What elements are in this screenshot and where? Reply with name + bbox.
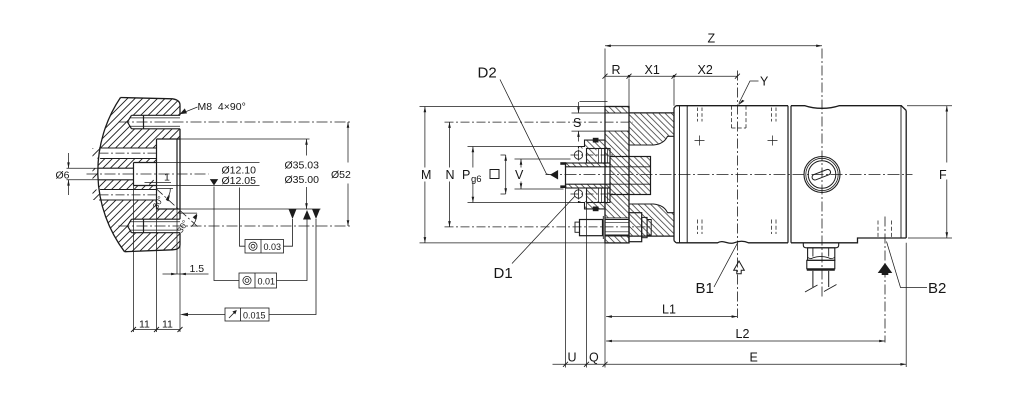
svg-text:Ø12.05: Ø12.05 [222,175,257,187]
svg-text:E: E [750,351,758,365]
M8 tapped hole top [128,115,181,129]
svg-text:1: 1 [164,172,170,184]
svg-text:P: P [462,168,470,182]
rear body right face [905,111,907,239]
neck bell bore bottom [629,204,674,213]
dimension Z [604,49,606,107]
B2 hole centreline [884,217,886,343]
dimension 11 11 [134,329,181,331]
band centrelines [100,153,158,195]
fitting hex [808,248,835,260]
svg-text:X1: X1 [645,63,660,77]
svg-text:Q: Q [589,351,599,365]
rear body bottom edge and corner notch [791,238,906,243]
neck bell bore top [629,136,674,145]
fitting tube with break [813,271,829,287]
LEFT VIEW GROUP [56,98,353,333]
bottom fitting flange [803,243,838,248]
dimension V [515,159,571,189]
Ø6 hole edges [99,168,134,180]
svg-text:g6: g6 [471,174,482,185]
dimension L1 [606,316,737,318]
Ø52 dimension line with arrows [347,122,349,226]
front housing left rings [673,108,675,241]
Ø12 extension lines [157,163,260,186]
RIGHT VIEW GROUP [420,32,953,368]
port kidney slot [811,169,831,181]
neck (front cover) outline [629,113,674,236]
flange front face line x=179.5 [179,105,181,245]
svg-text:11: 11 [139,319,150,331]
svg-text:B2: B2 [928,280,946,297]
svg-text:D2: D2 [478,65,497,82]
svg-text:0.01: 0.01 [258,276,276,286]
recess bottom face x=156 [156,139,158,209]
washer [602,216,604,239]
fitting ring nut [807,260,835,269]
dimension 1 (step) [145,182,172,184]
main shaft centreline [546,174,913,176]
hidden holes bottom face [698,220,777,235]
hidden slot top edge line [580,101,608,103]
gear shaft sectioned block [610,157,651,195]
neck hatched areas [629,113,674,145]
svg-text:V: V [515,168,524,182]
pump flange plate hatched bands [605,107,629,243]
angle 30 deg upper: stub line, arc, label [156,188,173,190]
flange section hatched body [93,98,181,252]
rotated-hole band top [99,148,156,159]
angle 30 deg lower: stub line, arc, label [179,212,198,214]
svg-text:0.015: 0.015 [243,310,266,320]
tolerance frame 0.015 runout [180,219,316,321]
section seam lines [788,106,791,243]
svg-text:N: N [446,168,455,182]
svg-text:D1: D1 [494,265,513,282]
svg-text:L2: L2 [736,327,750,341]
Ø35 dimension line with arrows [306,139,308,209]
dimension chain R X1 X2 [629,79,674,107]
nut right side [629,213,642,242]
side port circles [804,157,840,193]
Ø35 extension lines [177,139,321,209]
dimension P g6 [468,147,579,203]
spigot steps outline bottom [579,201,606,209]
shaft sleeve with hatched walls [566,163,611,167]
front cover screw centre marks [695,136,778,146]
svg-text:M: M [421,168,431,182]
svg-text:Y: Y [760,75,769,89]
setscrew position symbol bottom [574,189,582,200]
M8 top hole centreline extended [119,121,353,123]
M8 tapped hole bottom [128,219,181,233]
mounting hole centreline (X2/L1/B1) [736,71,738,319]
Ø12 bore end face x=133 [133,163,135,186]
Ø12 bore edges [134,163,157,186]
dimension M [420,107,606,243]
svg-text:L1: L1 [662,303,676,317]
O-ring sections (filled) [593,138,599,143]
flange face relief line x=176.5 [176,139,178,209]
dimension S [572,113,606,131]
svg-text:S: S [573,116,581,130]
flange outline bottom edge [125,245,181,252]
M8 label leader [182,107,198,113]
bolt sleeve through plate [605,220,629,236]
svg-text:M8 4×90°: M8 4×90° [198,101,246,113]
dimension N [449,122,451,227]
Ø12 datum triangle on lower line [210,179,218,185]
svg-text:X2: X2 [698,63,713,77]
svg-text:Ø6: Ø6 [56,170,70,182]
setscrew axes [571,155,614,194]
svg-text:R: R [612,63,621,77]
seal marks at shaft end [560,162,566,165]
tolerance frame 0.03 concentricity [240,188,293,254]
spigot steps outline top [579,140,606,148]
dimension line E with U Q [553,363,907,365]
flange outline top edge [121,98,181,106]
dimension 1.5 [163,273,209,275]
coupling block top with setscrew [587,149,611,164]
coupling block bottom with setscrew [587,188,611,203]
svg-text:11: 11 [162,319,173,331]
hidden tapped hole Y (top) [732,106,747,128]
rotation construction slanted centreline [156,189,198,227]
svg-text:0.03: 0.03 [264,242,282,252]
datum triangles on Ø35 lower extension [289,209,297,219]
dimension F [907,106,952,238]
dimension square symbol [501,155,506,194]
Ø35 recess edges [157,139,181,209]
svg-text:Ø52: Ø52 [331,169,351,181]
svg-text:F: F [939,168,947,182]
pump flange plate outline [605,107,629,243]
svg-text:B1: B1 [696,280,714,297]
slot centrelines (N extension) [445,121,633,123]
svg-text:Ø35.00: Ø35.00 [285,174,320,186]
front housing top edge [676,105,788,107]
M8 bottom hole centreline extended [119,225,353,227]
flange outer arc [98,98,125,252]
rotated-hole band bottom [99,190,156,201]
svg-text:1.5: 1.5 [190,263,205,275]
extension verticals to bottom dims [134,186,181,333]
dimension Ø6: extension lines, arrows, text [67,168,100,180]
extension verticals for bottom dimensions [566,188,907,368]
setscrew position symbol top [574,150,582,161]
main centreline [87,173,209,175]
hidden screw hole marks top [698,108,777,122]
bolt in bottom slot: head [580,220,603,236]
dimension L2 [606,340,885,342]
rear body top edge with port dip [791,106,906,111]
port centreline vertical [821,49,823,299]
svg-text:U: U [568,351,577,365]
bolt tip stub left [575,222,580,232]
plate slot edges [605,113,629,236]
svg-text:Ø35.03: Ø35.03 [285,160,320,172]
front housing bottom edge with B1 wave [676,241,788,243]
hidden hole at B2 [878,221,892,239]
tolerance frame 0.01 concentricity [214,187,307,289]
svg-text:Z: Z [708,32,716,46]
